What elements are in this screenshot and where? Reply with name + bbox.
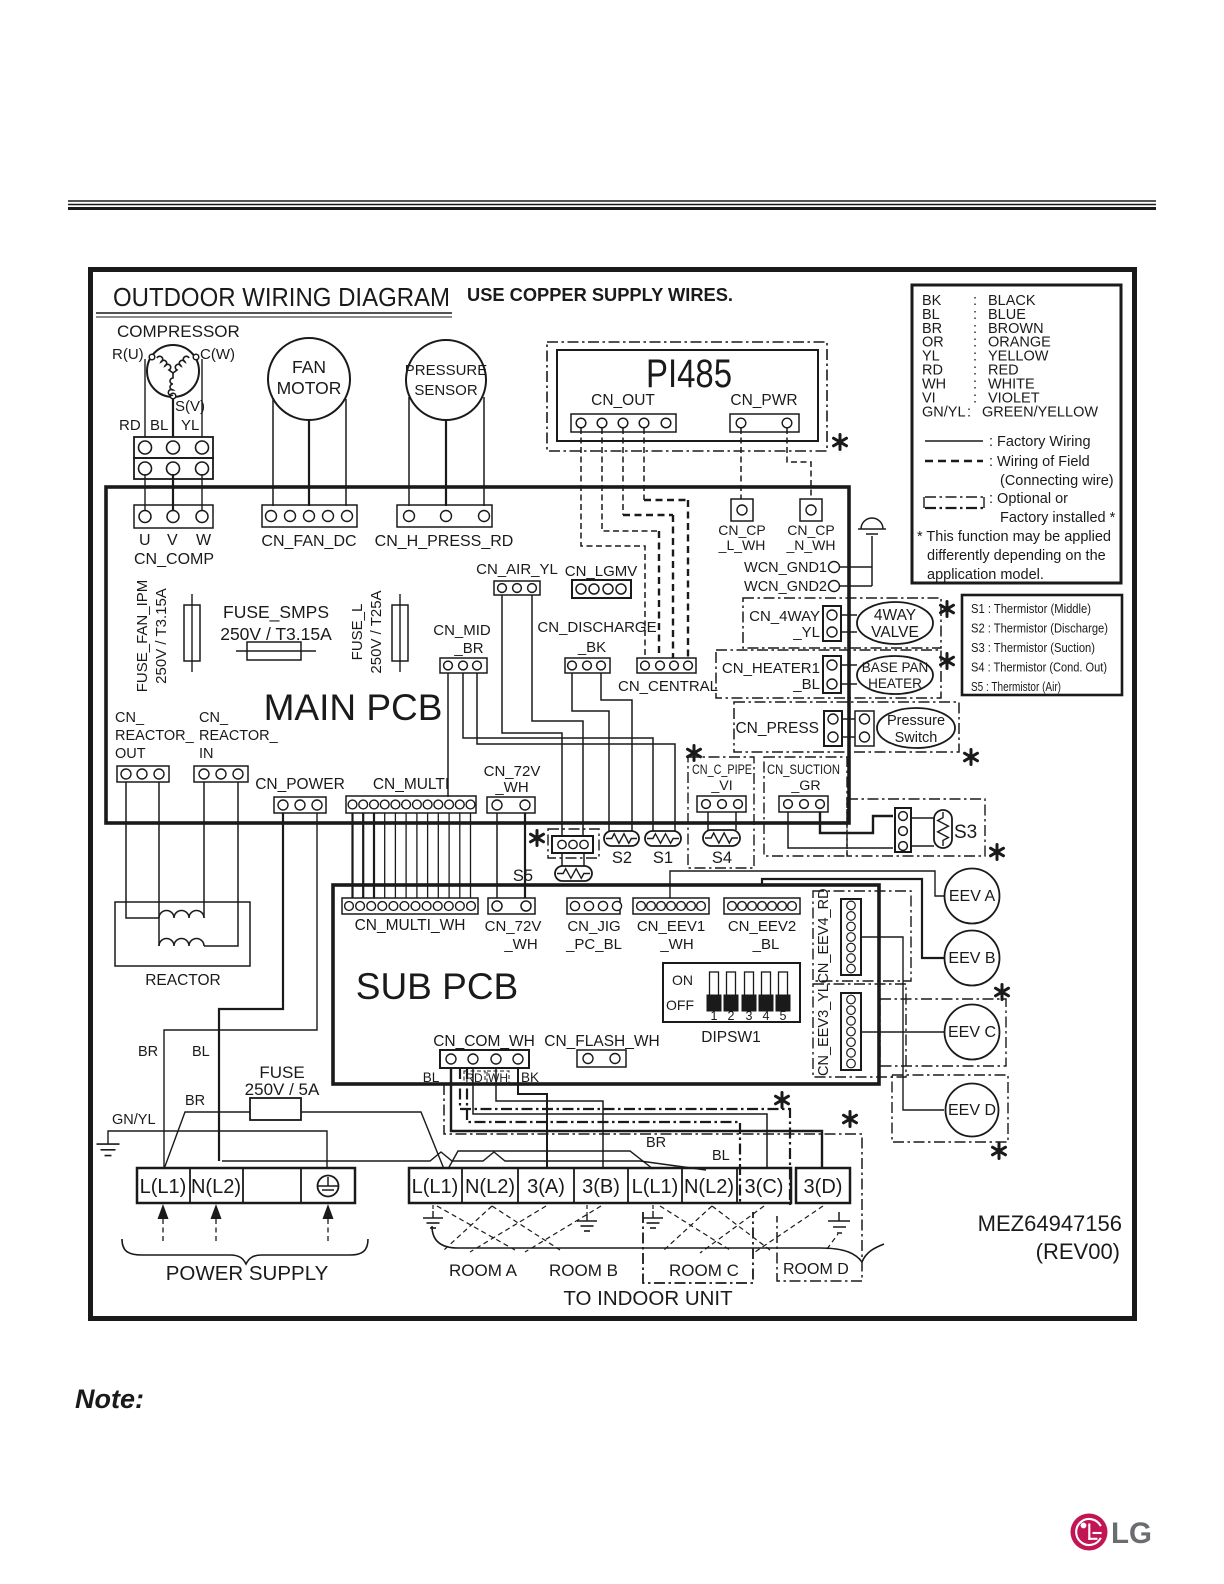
svg-text:differently depending on the: differently depending on the	[927, 548, 1106, 564]
svg-text:_L_WH: _L_WH	[718, 537, 766, 553]
svg-text:CN_LGMV: CN_LGMV	[565, 563, 638, 580]
svg-text:FUSE_FAN_IPM: FUSE_FAN_IPM	[134, 580, 151, 693]
svg-text:HEATER: HEATER	[868, 676, 922, 691]
svg-text:CN_COMP: CN_COMP	[134, 551, 214, 568]
svg-text:YL: YL	[181, 417, 199, 434]
svg-text:PI485: PI485	[646, 352, 732, 396]
svg-text:CN_DISCHARGE: CN_DISCHARGE	[537, 619, 656, 636]
svg-text:MAIN PCB: MAIN PCB	[264, 687, 443, 728]
svg-text:BR: BR	[138, 1044, 158, 1060]
svg-text:CN_EEV4_RD: CN_EEV4_RD	[816, 888, 832, 983]
svg-text:OUTDOOR WIRING DIAGRAM: OUTDOOR WIRING DIAGRAM	[113, 282, 450, 312]
svg-text:WCN_GND2: WCN_GND2	[744, 579, 827, 595]
svg-text:S5 : Thermistor (Air): S5 : Thermistor (Air)	[971, 679, 1061, 694]
svg-text:FAN: FAN	[292, 357, 326, 377]
svg-text:3(A): 3(A)	[527, 1176, 565, 1198]
svg-text:BK: BK	[521, 1070, 539, 1085]
svg-text:TO INDOOR UNIT: TO INDOOR UNIT	[563, 1287, 733, 1310]
svg-text:GREEN/YELLOW: GREEN/YELLOW	[982, 405, 1098, 421]
svg-text:3(D): 3(D)	[804, 1176, 843, 1198]
svg-text:CN_AIR_YL: CN_AIR_YL	[476, 561, 558, 578]
svg-text:L(L1): L(L1)	[140, 1176, 187, 1198]
svg-text:REACTOR_: REACTOR_	[115, 728, 195, 744]
svg-text:Note:: Note:	[75, 1384, 144, 1414]
svg-text:N(L2): N(L2)	[191, 1176, 241, 1198]
svg-text:S1 : Thermistor (Middle): S1 : Thermistor (Middle)	[971, 601, 1091, 616]
svg-text:CN_FLASH_WH: CN_FLASH_WH	[544, 1033, 659, 1050]
svg-text:COMPRESSOR: COMPRESSOR	[117, 322, 240, 341]
svg-text:S5: S5	[513, 867, 533, 885]
svg-text:_VI: _VI	[710, 778, 732, 794]
svg-text:BR: BR	[646, 1135, 666, 1151]
svg-text:ON: ON	[672, 972, 693, 988]
svg-text:* This function may be applied: * This function may be applied	[917, 529, 1111, 545]
svg-text:_BK: _BK	[577, 639, 606, 656]
svg-text:RD: RD	[119, 417, 141, 434]
svg-text:MEZ64947156: MEZ64947156	[978, 1211, 1122, 1236]
svg-text:ROOM D: ROOM D	[783, 1261, 849, 1278]
svg-text:EEV A: EEV A	[949, 888, 996, 905]
svg-text:REACTOR_: REACTOR_	[199, 728, 279, 744]
svg-text:1: 1	[711, 1009, 718, 1023]
svg-text:SENSOR: SENSOR	[414, 382, 478, 399]
svg-text::: :	[973, 390, 977, 406]
svg-text:_GR: _GR	[790, 778, 820, 794]
svg-text:VALVE: VALVE	[871, 624, 919, 641]
svg-text:BL: BL	[423, 1070, 440, 1085]
svg-text:2: 2	[728, 1009, 735, 1023]
svg-text:CN_C_PIPE: CN_C_PIPE	[692, 762, 752, 777]
svg-text:Pressure: Pressure	[887, 713, 945, 729]
svg-text:CN_PWR: CN_PWR	[730, 392, 797, 409]
svg-text:GN/YL: GN/YL	[922, 405, 966, 421]
svg-text:N(L2): N(L2)	[465, 1176, 515, 1198]
svg-text:: Optional or: : Optional or	[989, 491, 1068, 507]
svg-text:_PC_BL: _PC_BL	[565, 936, 622, 953]
svg-text:S2: S2	[612, 849, 632, 867]
svg-text:_WH: _WH	[494, 779, 528, 796]
svg-text:3: 3	[746, 1009, 753, 1023]
svg-text:ROOM C: ROOM C	[669, 1261, 739, 1280]
svg-text:BR: BR	[185, 1093, 205, 1109]
svg-text:CN_COM_WH: CN_COM_WH	[433, 1033, 535, 1050]
svg-text:CN_PRESS: CN_PRESS	[735, 720, 819, 737]
svg-text:CN_OUT: CN_OUT	[591, 392, 655, 409]
svg-text:(Connecting wire): (Connecting wire)	[1000, 473, 1114, 489]
svg-text:CN_CENTRAL: CN_CENTRAL	[618, 678, 718, 695]
svg-text:: Wiring of Field: : Wiring of Field	[989, 454, 1090, 470]
svg-text:PRESSURE: PRESSURE	[405, 362, 488, 379]
svg-text:CN_MULTI: CN_MULTI	[373, 776, 449, 793]
svg-text:DIPSW1: DIPSW1	[701, 1029, 760, 1046]
svg-text:R(U): R(U)	[112, 346, 144, 363]
svg-text:CN_EEV1: CN_EEV1	[637, 918, 705, 935]
svg-text:Switch: Switch	[895, 730, 938, 746]
svg-text:4WAY: 4WAY	[874, 607, 916, 624]
svg-text:WH: WH	[488, 1071, 508, 1085]
svg-text:CN_: CN_	[199, 710, 229, 726]
svg-text:OFF: OFF	[666, 997, 694, 1013]
svg-text:MOTOR: MOTOR	[277, 378, 342, 398]
svg-text:OUT: OUT	[115, 746, 146, 762]
svg-text:ROOM A: ROOM A	[449, 1261, 518, 1280]
svg-text:CN_EEV3_YL: CN_EEV3_YL	[816, 984, 832, 1076]
svg-text:CN_EEV2: CN_EEV2	[728, 918, 796, 935]
svg-text:C(W): C(W)	[200, 346, 235, 363]
svg-text:WCN_GND1: WCN_GND1	[744, 560, 827, 576]
svg-text:S(V): S(V)	[175, 398, 205, 415]
svg-text:GN/YL: GN/YL	[112, 1112, 156, 1128]
svg-text:FUSE_SMPS: FUSE_SMPS	[223, 602, 329, 623]
svg-text:5: 5	[780, 1009, 787, 1023]
svg-text:ROOM B: ROOM B	[549, 1261, 618, 1280]
svg-text:POWER SUPPLY: POWER SUPPLY	[166, 1262, 329, 1285]
svg-text:BASE PAN: BASE PAN	[862, 660, 929, 675]
svg-text:4: 4	[763, 1009, 770, 1023]
svg-text:_BL: _BL	[792, 676, 820, 693]
svg-text:S4: S4	[712, 849, 732, 867]
svg-text:CN_FAN_DC: CN_FAN_DC	[261, 533, 356, 550]
svg-text:EEV B: EEV B	[948, 950, 995, 967]
svg-text:REACTOR: REACTOR	[145, 972, 221, 989]
svg-text:250V / T25A: 250V / T25A	[368, 590, 385, 673]
svg-text:CN_72V: CN_72V	[484, 763, 541, 780]
svg-text:3(C): 3(C)	[745, 1176, 784, 1198]
svg-text:FUSE_L: FUSE_L	[349, 604, 366, 661]
svg-text:V: V	[167, 532, 178, 549]
svg-text:BL: BL	[712, 1148, 730, 1164]
svg-text:250V / T3.15A: 250V / T3.15A	[220, 624, 332, 644]
svg-text:CN_MID: CN_MID	[433, 622, 491, 639]
svg-text:CN_4WAY: CN_4WAY	[749, 608, 820, 625]
svg-text:_WH: _WH	[503, 936, 537, 953]
svg-text:250V / 5A: 250V / 5A	[245, 1080, 320, 1099]
svg-text:_BR: _BR	[453, 640, 483, 657]
svg-text:CN_POWER: CN_POWER	[255, 776, 345, 793]
svg-text:CN_HEATER1: CN_HEATER1	[722, 660, 820, 677]
svg-text:3(B): 3(B)	[582, 1176, 620, 1198]
svg-text:_N_WH: _N_WH	[785, 537, 835, 553]
svg-text:CN_CP: CN_CP	[718, 522, 765, 538]
svg-text:LG: LG	[1111, 1517, 1152, 1550]
svg-text:USE COPPER SUPPLY WIRES.: USE COPPER SUPPLY WIRES.	[467, 285, 733, 305]
svg-text:: Factory Wiring: : Factory Wiring	[989, 434, 1091, 450]
svg-text:L(L1): L(L1)	[632, 1176, 679, 1198]
svg-text:(REV00): (REV00)	[1036, 1239, 1120, 1264]
svg-text:S3 : Thermistor (Suction): S3 : Thermistor (Suction)	[971, 640, 1095, 655]
svg-text:_BL: _BL	[752, 936, 780, 953]
svg-text:IN: IN	[199, 746, 214, 762]
svg-text:CN_H_PRESS_RD: CN_H_PRESS_RD	[375, 533, 514, 550]
svg-text::: :	[967, 405, 971, 421]
svg-text:S1: S1	[653, 849, 673, 867]
svg-text:N(L2): N(L2)	[684, 1176, 734, 1198]
svg-text:SUB PCB: SUB PCB	[356, 966, 518, 1007]
svg-text:Factory installed *: Factory installed *	[1000, 510, 1116, 526]
svg-text:CN_CP: CN_CP	[787, 522, 834, 538]
svg-text:CN_JIG: CN_JIG	[567, 918, 620, 935]
svg-text:CN_SUCTION: CN_SUCTION	[767, 762, 840, 777]
svg-text:CN_: CN_	[115, 710, 145, 726]
svg-text:BL: BL	[192, 1044, 210, 1060]
svg-text:S2 : Thermistor (Discharge): S2 : Thermistor (Discharge)	[971, 621, 1108, 636]
svg-text:_YL: _YL	[792, 624, 820, 641]
svg-text:EEV C: EEV C	[948, 1024, 996, 1041]
svg-text:EEV D: EEV D	[948, 1102, 996, 1119]
svg-text:U: U	[139, 532, 151, 549]
svg-text:application model.: application model.	[927, 567, 1044, 583]
svg-text:CN_72V: CN_72V	[485, 918, 542, 935]
svg-text:BL: BL	[150, 417, 168, 434]
svg-text:S3: S3	[954, 822, 977, 843]
svg-text:250V / T3.15A: 250V / T3.15A	[153, 588, 170, 684]
svg-text:S4 : Thermistor (Cond. Out): S4 : Thermistor (Cond. Out)	[971, 660, 1107, 675]
svg-text:L(L1): L(L1)	[412, 1176, 459, 1198]
svg-text:W: W	[196, 532, 212, 549]
svg-text:_WH: _WH	[659, 936, 693, 953]
svg-text:CN_MULTI_WH: CN_MULTI_WH	[355, 917, 466, 934]
